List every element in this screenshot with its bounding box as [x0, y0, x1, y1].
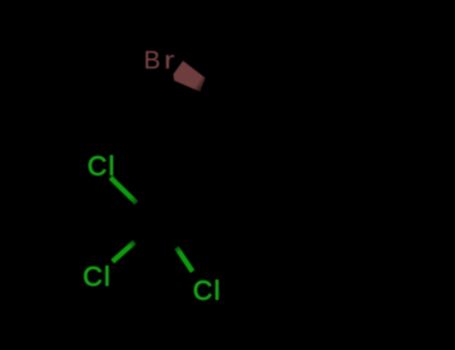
- wedge bond (Br half, solid wedge to stereocenter): [173, 61, 205, 92]
- bond C-Cl (top): [111, 178, 137, 204]
- svg-text:B: B: [144, 46, 161, 74]
- svg-text:Cl: Cl: [87, 151, 116, 181]
- bond C-Cl (bottom right): [177, 248, 193, 272]
- svg-text:Cl: Cl: [83, 261, 112, 291]
- svg-text:Cl: Cl: [193, 275, 222, 305]
- svg-text:r: r: [164, 47, 175, 75]
- bond C-Cl (bottom left): [113, 242, 135, 262]
